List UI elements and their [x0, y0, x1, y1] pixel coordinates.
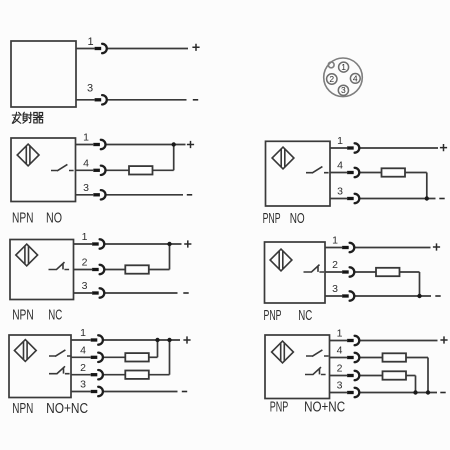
svg-text:4: 4	[83, 158, 89, 170]
svg-text:PNP: PNP	[263, 210, 281, 227]
svg-text:4: 4	[337, 345, 343, 357]
svg-text:3: 3	[82, 280, 88, 292]
svg-text:PNP: PNP	[270, 399, 289, 416]
svg-text:2: 2	[80, 362, 86, 374]
svg-text:1: 1	[341, 62, 346, 72]
svg-text:2: 2	[329, 74, 334, 84]
svg-text:NO: NO	[290, 210, 305, 227]
svg-text:NO: NO	[46, 210, 62, 227]
svg-text:3: 3	[83, 182, 89, 194]
svg-text:1: 1	[83, 132, 89, 144]
svg-text:NC: NC	[48, 307, 62, 324]
svg-text:2: 2	[82, 257, 88, 269]
svg-text:NPN: NPN	[12, 307, 34, 324]
svg-text:3: 3	[341, 85, 346, 95]
svg-text:1: 1	[337, 328, 343, 340]
svg-text:1: 1	[337, 135, 343, 147]
svg-text:3: 3	[87, 83, 93, 95]
svg-text:1: 1	[80, 327, 86, 339]
svg-text:4: 4	[80, 345, 86, 357]
svg-text:1: 1	[332, 235, 338, 247]
svg-text:2: 2	[337, 363, 343, 375]
svg-text:3: 3	[80, 379, 86, 391]
svg-text:1: 1	[82, 231, 88, 243]
svg-text:3: 3	[337, 380, 343, 392]
svg-text:4: 4	[353, 73, 358, 83]
svg-text:PNP: PNP	[264, 307, 282, 324]
svg-text:3: 3	[337, 186, 343, 198]
svg-text:NO+NC: NO+NC	[46, 400, 88, 417]
svg-text:NC: NC	[298, 307, 312, 324]
svg-text:NPN: NPN	[12, 210, 34, 227]
svg-text:3: 3	[332, 283, 338, 295]
svg-text:4: 4	[337, 160, 343, 172]
svg-text:1: 1	[87, 36, 93, 48]
svg-text:NO+NC: NO+NC	[304, 399, 345, 416]
svg-text:2: 2	[332, 259, 338, 271]
svg-text:NPN: NPN	[12, 400, 33, 417]
